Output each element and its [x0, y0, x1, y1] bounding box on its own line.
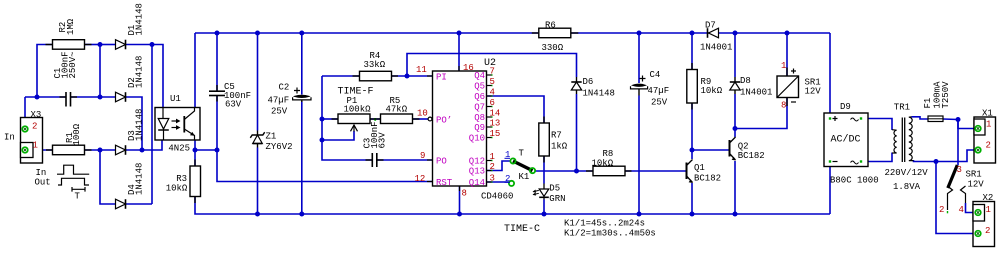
- svg-text:4: 4: [959, 205, 964, 215]
- svg-text:1N4001: 1N4001: [740, 88, 772, 98]
- svg-text:33kΩ: 33kΩ: [364, 60, 386, 70]
- svg-text:220V/12V: 220V/12V: [885, 168, 929, 178]
- svg-text:1.8VA: 1.8VA: [893, 182, 921, 192]
- svg-text:63V: 63V: [225, 100, 242, 110]
- svg-text:5: 5: [490, 77, 495, 87]
- svg-text:Q4: Q4: [474, 71, 485, 81]
- svg-text:1N4148: 1N4148: [134, 56, 144, 88]
- svg-text:1N4148: 1N4148: [583, 89, 615, 99]
- svg-text:D5: D5: [549, 184, 560, 194]
- svg-text:TR1: TR1: [894, 103, 910, 113]
- svg-text:4N25: 4N25: [168, 144, 190, 154]
- svg-text:R8: R8: [603, 149, 614, 159]
- svg-text:13: 13: [490, 119, 501, 129]
- svg-text:2: 2: [985, 226, 990, 236]
- svg-text:8: 8: [462, 189, 467, 199]
- svg-text:T: T: [75, 192, 81, 202]
- svg-text:47µF: 47µF: [268, 96, 290, 106]
- svg-text:1MΩ: 1MΩ: [66, 18, 76, 35]
- svg-text:63V: 63V: [378, 132, 388, 149]
- svg-text:14: 14: [490, 109, 501, 119]
- svg-text:1: 1: [986, 120, 991, 130]
- svg-text:BC182: BC182: [738, 151, 765, 161]
- svg-text:1N4148: 1N4148: [134, 3, 144, 35]
- svg-text:12V: 12V: [968, 180, 985, 190]
- svg-text:4: 4: [490, 88, 495, 98]
- svg-text:47µF: 47µF: [648, 86, 670, 96]
- svg-text:1: 1: [986, 205, 991, 215]
- svg-text:1kΩ: 1kΩ: [551, 142, 568, 152]
- svg-text:3: 3: [490, 174, 495, 184]
- svg-text:D7: D7: [705, 21, 716, 31]
- svg-text:8: 8: [781, 101, 786, 111]
- svg-text:16: 16: [463, 63, 474, 73]
- svg-text:2: 2: [986, 141, 991, 151]
- svg-text:D6: D6: [583, 77, 594, 87]
- svg-text:Q7: Q7: [474, 103, 485, 113]
- svg-text:PI: PI: [436, 73, 447, 83]
- svg-text:Q13: Q13: [469, 167, 485, 177]
- svg-text:1: 1: [505, 150, 510, 160]
- svg-text:D9: D9: [840, 102, 851, 112]
- svg-text:Q10: Q10: [469, 134, 485, 144]
- svg-text:Z1: Z1: [266, 132, 277, 142]
- svg-text:10: 10: [417, 109, 428, 119]
- svg-text:C2: C2: [279, 83, 290, 93]
- svg-text:25V: 25V: [651, 98, 668, 108]
- svg-text:1: 1: [33, 141, 38, 151]
- svg-text:Out: Out: [35, 178, 51, 188]
- svg-text:K1/1=45s..2m24s: K1/1=45s..2m24s: [564, 219, 645, 229]
- svg-text:1: 1: [490, 152, 495, 162]
- svg-text:100kΩ: 100kΩ: [344, 105, 372, 115]
- svg-text:K1/2=1m30s..4m50s: K1/2=1m30s..4m50s: [564, 229, 656, 239]
- svg-text:12: 12: [415, 174, 426, 184]
- svg-text:Q8: Q8: [474, 113, 485, 123]
- svg-text:CD4060: CD4060: [481, 192, 513, 202]
- svg-text:12V: 12V: [805, 87, 822, 97]
- svg-text:Q9: Q9: [474, 123, 485, 133]
- svg-text:250V~: 250V~: [68, 51, 78, 78]
- svg-text:B80C 1000: B80C 1000: [830, 176, 879, 186]
- svg-text:15: 15: [490, 129, 501, 139]
- svg-text:BC182: BC182: [694, 173, 721, 183]
- svg-text:F1: F1: [923, 98, 933, 109]
- svg-text:7: 7: [490, 67, 495, 77]
- svg-text:Q6: Q6: [474, 92, 485, 102]
- svg-text:AC/DC: AC/DC: [831, 134, 861, 146]
- svg-text:PO’: PO’: [436, 116, 452, 126]
- svg-text:X3: X3: [31, 110, 42, 120]
- svg-text:X1: X1: [982, 109, 993, 119]
- svg-text:R7: R7: [551, 131, 562, 141]
- svg-text:1N4148: 1N4148: [134, 109, 144, 141]
- svg-text:D8: D8: [740, 76, 751, 86]
- svg-text:Q14: Q14: [469, 178, 485, 188]
- svg-text:1N4001: 1N4001: [700, 43, 732, 53]
- svg-text:R3: R3: [176, 174, 187, 184]
- svg-text:GRN: GRN: [549, 194, 565, 204]
- svg-text:TIME-C: TIME-C: [504, 224, 540, 235]
- svg-text:10kΩ: 10kΩ: [166, 184, 188, 194]
- svg-text:In: In: [4, 133, 15, 143]
- svg-text:3: 3: [957, 165, 962, 175]
- svg-text:2: 2: [490, 162, 495, 172]
- svg-text:10kΩ: 10kΩ: [592, 159, 614, 169]
- svg-text:X2: X2: [983, 193, 994, 203]
- svg-text:2: 2: [939, 205, 944, 215]
- svg-text:11: 11: [416, 65, 427, 75]
- svg-text:K1: K1: [519, 172, 530, 182]
- svg-text:1: 1: [781, 61, 786, 71]
- svg-text:9: 9: [420, 151, 425, 161]
- svg-text:In: In: [36, 168, 47, 178]
- svg-text:47kΩ: 47kΩ: [386, 105, 408, 115]
- svg-text:Q2: Q2: [738, 142, 749, 152]
- svg-text:Q1: Q1: [694, 163, 705, 173]
- svg-text:U1: U1: [170, 94, 181, 104]
- svg-text:PO: PO: [436, 157, 447, 167]
- svg-text:2: 2: [505, 174, 510, 184]
- svg-text:T: T: [519, 149, 525, 159]
- svg-text:Q12: Q12: [469, 157, 485, 167]
- svg-text:ZY6V2: ZY6V2: [266, 142, 293, 152]
- svg-text:SR1: SR1: [966, 170, 982, 180]
- svg-text:C4: C4: [650, 70, 661, 80]
- svg-text:T250V: T250V: [941, 81, 951, 109]
- svg-text:100Ω: 100Ω: [72, 123, 82, 145]
- svg-text:R6: R6: [545, 21, 556, 31]
- svg-text:330Ω: 330Ω: [542, 43, 564, 53]
- svg-text:2: 2: [32, 122, 37, 132]
- svg-text:25V: 25V: [271, 107, 288, 117]
- svg-text:6: 6: [490, 98, 495, 108]
- svg-text:1N4148: 1N4148: [134, 163, 144, 195]
- svg-text:RST: RST: [436, 178, 453, 188]
- svg-text:Q5: Q5: [474, 82, 485, 92]
- svg-text:10kΩ: 10kΩ: [701, 86, 723, 96]
